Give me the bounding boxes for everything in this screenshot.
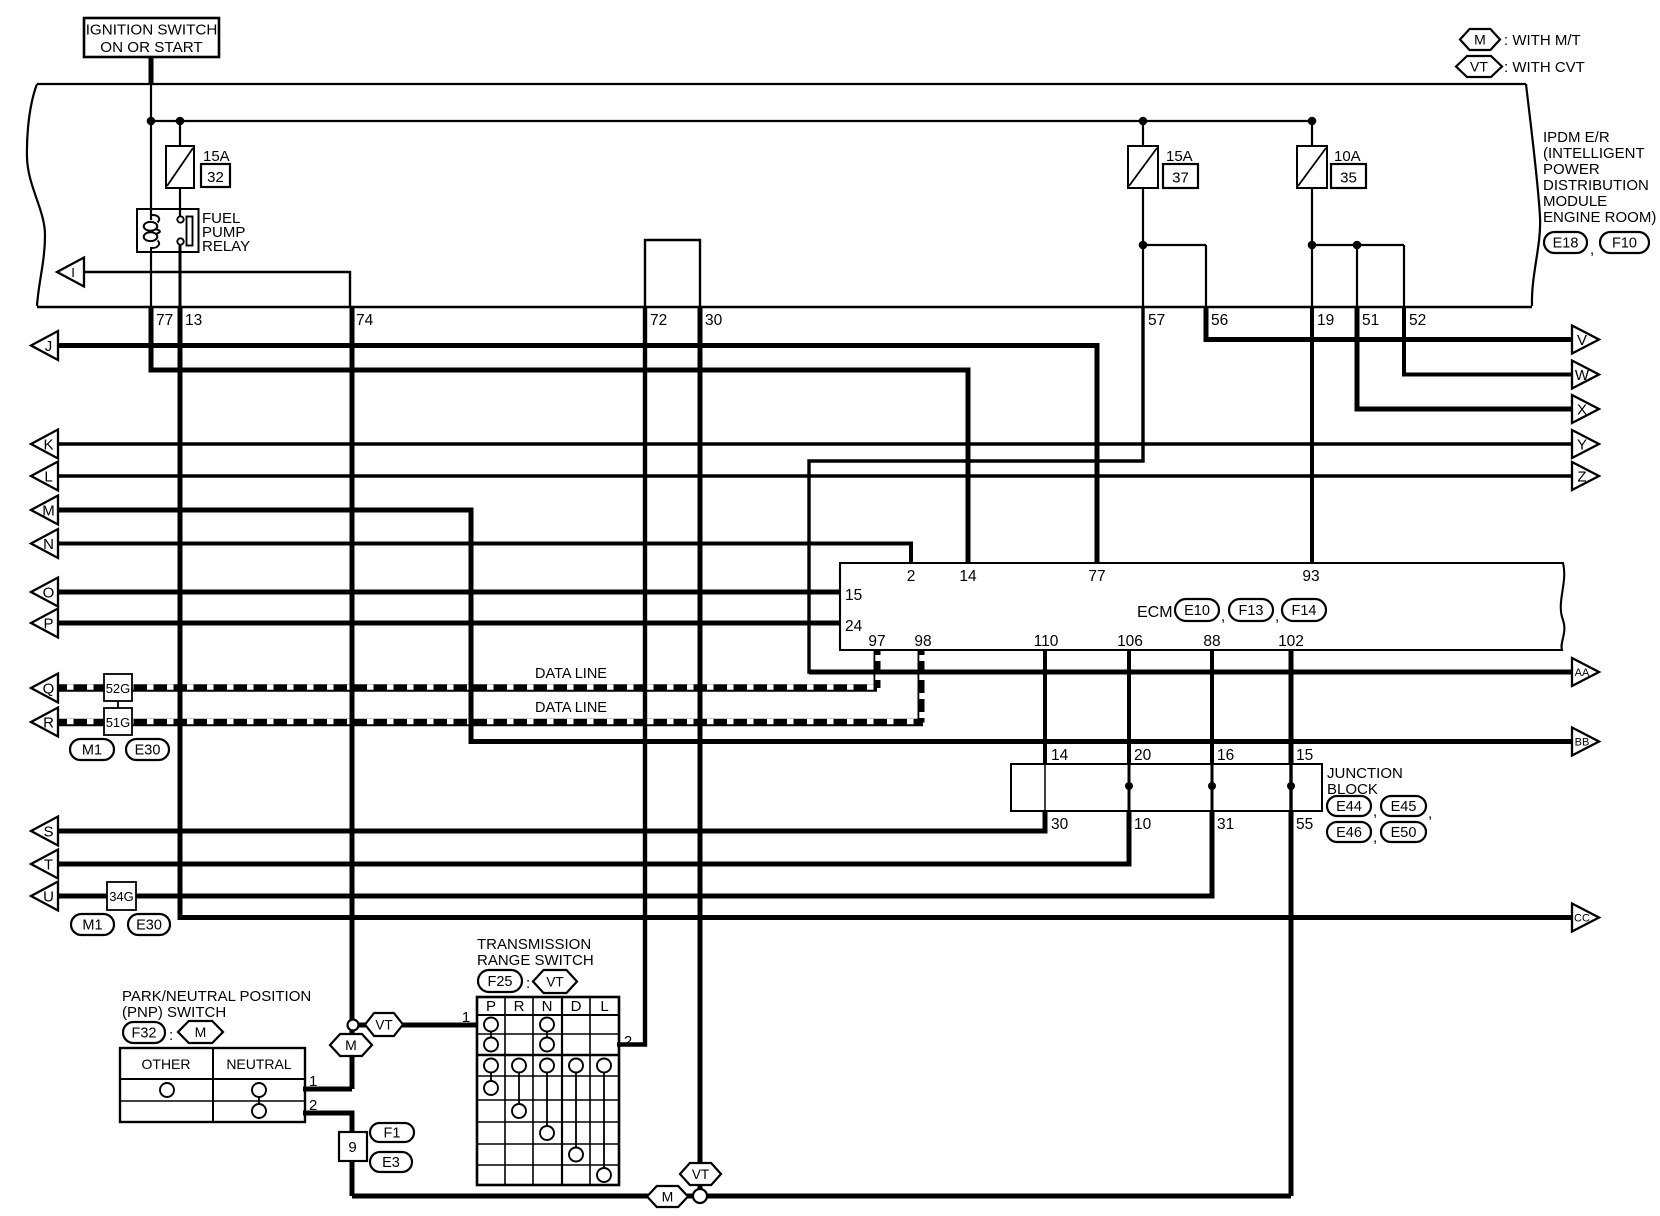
svg-text:M1: M1 xyxy=(82,918,102,934)
connector V triangle xyxy=(1572,326,1599,354)
wire connector T to junction block pin 10 xyxy=(58,810,1129,864)
legend hexagon VT with CVT xyxy=(1456,56,1502,77)
svg-text:AA: AA xyxy=(1575,667,1590,679)
svg-text:E44: E44 xyxy=(1336,799,1362,815)
connector J triangle xyxy=(31,331,58,360)
node junction block dot column 15 xyxy=(1287,782,1295,790)
svg-text:N: N xyxy=(43,536,54,553)
svg-text:77: 77 xyxy=(156,312,173,329)
wire junction block internal column 14-30 xyxy=(1044,764,1046,811)
wire junction block pin 55 to bottom wire xyxy=(1289,810,1294,1196)
svg-text:10A: 10A xyxy=(1334,148,1361,165)
svg-text:,: , xyxy=(1590,241,1594,258)
svg-text:L: L xyxy=(600,998,608,1015)
svg-text:77: 77 xyxy=(1088,568,1105,585)
svg-text:1: 1 xyxy=(462,1009,470,1026)
wire feed to fuse 32 xyxy=(179,121,181,147)
connector I triangle xyxy=(57,258,84,287)
connector X triangle xyxy=(1572,395,1599,423)
svg-text:IPDM E/R: IPDM E/R xyxy=(1543,129,1610,146)
IPDM E/R enclosure box (dashed body outline) xyxy=(27,84,45,306)
node open circle variant split xyxy=(348,1020,359,1031)
hexagon VT variant tag on pin 30 wire xyxy=(680,1163,721,1185)
wire relay contact to pin 13 xyxy=(179,244,182,307)
connector F1 oval xyxy=(370,1123,414,1142)
svg-text:F13: F13 xyxy=(1239,603,1264,619)
connector 9 box on PNP pin 2 wire xyxy=(339,1132,367,1161)
node junction dot at fuse 37 branch xyxy=(1139,117,1148,126)
connector F10 oval xyxy=(1600,232,1649,253)
svg-text:I: I xyxy=(71,265,75,280)
wire variant branch VT to transmission range switch pin 1 xyxy=(355,1023,478,1028)
svg-text:E30: E30 xyxy=(136,918,162,934)
wire fuse 35 to pins 19 51 52 xyxy=(1311,188,1313,307)
wire pin 19 to ECM pin 93 xyxy=(1310,306,1314,563)
wire pin 77 to ECM pin 14 xyxy=(151,306,968,563)
connector Z triangle xyxy=(1572,462,1599,490)
svg-text:14: 14 xyxy=(959,568,977,585)
svg-text:J: J xyxy=(45,338,53,355)
wire connector S to junction block pin 30 xyxy=(58,810,1045,831)
svg-text:RANGE SWITCH: RANGE SWITCH xyxy=(477,952,594,969)
svg-text:E46: E46 xyxy=(1336,825,1362,841)
svg-text:52: 52 xyxy=(1409,312,1426,329)
connector F13 oval xyxy=(1229,599,1273,621)
svg-text:72: 72 xyxy=(650,312,667,329)
svg-text:Z: Z xyxy=(1577,469,1586,486)
connector R triangle xyxy=(31,708,58,737)
svg-text:BB: BB xyxy=(1575,737,1590,749)
svg-text:F1: F1 xyxy=(384,1126,401,1142)
legend hexagon M with M/T xyxy=(1460,29,1500,50)
svg-text:DATA LINE: DATA LINE xyxy=(535,700,607,716)
connector T triangle xyxy=(31,850,58,879)
svg-text:2: 2 xyxy=(624,1033,632,1050)
svg-text:: WITH CVT: : WITH CVT xyxy=(1504,59,1585,76)
svg-text:16: 16 xyxy=(1217,747,1234,764)
hexagon M variant tag on PNP wire xyxy=(330,1034,372,1056)
wire fuse 37 to pins 57 and 56 xyxy=(1142,188,1144,307)
svg-text:ENGINE ROOM): ENGINE ROOM) xyxy=(1543,209,1656,226)
svg-text:X: X xyxy=(1577,402,1587,419)
svg-text:ECM: ECM xyxy=(1137,604,1173,621)
svg-text:15A: 15A xyxy=(1166,148,1193,165)
relay contact blade xyxy=(187,217,193,246)
connector CC triangle xyxy=(1572,904,1599,932)
connector M1 oval (data lines) xyxy=(70,739,114,760)
svg-text:M: M xyxy=(662,1189,674,1205)
connector K triangle xyxy=(31,430,58,459)
wire PNP pin 2 to connector 9 xyxy=(303,1113,352,1196)
svg-text:R: R xyxy=(43,715,54,732)
svg-text:E18: E18 xyxy=(1553,236,1579,252)
connector F14 oval xyxy=(1282,599,1326,621)
relay coil xyxy=(151,209,159,223)
svg-text:F14: F14 xyxy=(1292,603,1317,619)
svg-text:F25: F25 xyxy=(488,974,513,990)
wire connector N to ECM pin 2 xyxy=(58,544,911,564)
svg-text:56: 56 xyxy=(1211,312,1228,329)
fuse 37 15A xyxy=(1128,146,1158,188)
svg-text:ON OR START: ON OR START xyxy=(100,39,202,56)
connector M1 oval (line U) xyxy=(71,914,114,935)
wire bottom variant wire from PNP/TRS to junction block pin 55 xyxy=(352,1194,1291,1199)
shield box 51G on line R xyxy=(104,708,132,735)
wire pin 52 to connector W xyxy=(1404,306,1572,375)
svg-text:O: O xyxy=(43,585,55,602)
svg-text:10: 10 xyxy=(1134,816,1152,833)
svg-text:74: 74 xyxy=(356,312,374,329)
fuse 35 10A xyxy=(1297,146,1327,188)
svg-text:51G: 51G xyxy=(106,715,131,730)
wire ECM pin 106 to junction block pin 20 xyxy=(1127,651,1131,765)
connector E3 oval xyxy=(370,1152,412,1172)
connector O triangle xyxy=(31,578,58,607)
svg-text:35: 35 xyxy=(1340,170,1357,187)
svg-text:(INTELLIGENT: (INTELLIGENT xyxy=(1543,145,1645,162)
svg-text::: : xyxy=(169,1027,173,1044)
wire junction block internal column 16-31 xyxy=(1211,764,1214,811)
connector Y triangle xyxy=(1572,430,1599,458)
ignition switch box xyxy=(84,18,219,57)
label fuse 32 number box xyxy=(201,164,230,187)
svg-text:POWER: POWER xyxy=(1543,161,1600,178)
wire pin 30 down to bottom junction circle xyxy=(698,306,703,1196)
svg-text:P: P xyxy=(486,998,496,1015)
connector E45 oval xyxy=(1381,796,1426,816)
svg-text:CC: CC xyxy=(1574,913,1590,925)
svg-text:OTHER: OTHER xyxy=(142,1056,191,1072)
svg-text:106: 106 xyxy=(1117,633,1143,650)
label fuse 37 number box xyxy=(1163,164,1198,188)
svg-text:M: M xyxy=(195,1024,207,1040)
svg-text:,: , xyxy=(1373,829,1377,846)
svg-text:DISTRIBUTION: DISTRIBUTION xyxy=(1543,177,1649,194)
wire ECM pin 88 to junction block pin 16 xyxy=(1210,651,1214,765)
svg-text:RELAY: RELAY xyxy=(202,238,250,255)
svg-text:M: M xyxy=(345,1037,357,1053)
wire pin 57 to connector AA xyxy=(809,306,1572,672)
svg-text:57: 57 xyxy=(1148,312,1165,329)
svg-text:E45: E45 xyxy=(1391,799,1417,815)
wire IPDM internal feed bus xyxy=(151,120,1312,122)
connector L triangle xyxy=(31,462,58,491)
svg-text:Q: Q xyxy=(43,681,55,698)
node junction dot at coil branch xyxy=(147,117,156,126)
connector F32 oval xyxy=(123,1022,165,1043)
PNP switch table xyxy=(120,1048,305,1122)
shield box 52G on line Q xyxy=(104,674,132,701)
svg-text:,: , xyxy=(1221,608,1225,625)
PNP contact circle neutral row1 xyxy=(252,1083,266,1097)
svg-text:M: M xyxy=(1474,32,1486,48)
svg-text:DATA LINE: DATA LINE xyxy=(535,666,607,682)
svg-text:E3: E3 xyxy=(382,1155,400,1171)
wire connector P to ECM pin 24 xyxy=(58,621,841,626)
svg-text:15: 15 xyxy=(845,587,862,604)
svg-text:15A: 15A xyxy=(203,148,230,165)
svg-text:VT: VT xyxy=(692,1167,709,1182)
wire connector M to connector BB xyxy=(58,510,1572,742)
svg-text:Y: Y xyxy=(1577,437,1587,454)
svg-text:20: 20 xyxy=(1134,747,1152,764)
node junction dot at fuse 35 branch xyxy=(1308,117,1317,126)
svg-text:31: 31 xyxy=(1217,816,1234,833)
wire relay coil to pin 77 xyxy=(150,252,152,307)
svg-text:L: L xyxy=(44,469,52,486)
connector BB triangle xyxy=(1572,728,1599,756)
connector W triangle xyxy=(1572,361,1599,389)
svg-text::: : xyxy=(526,975,530,992)
svg-text:VT: VT xyxy=(375,1017,392,1032)
wire IPDM internal loop pins 72 and 30 xyxy=(645,240,700,307)
node junction block dot column 16 xyxy=(1208,782,1216,790)
svg-text:PARK/NEUTRAL POSITION: PARK/NEUTRAL POSITION xyxy=(122,988,311,1005)
svg-text:13: 13 xyxy=(185,312,202,329)
PNP contact link neutral xyxy=(258,1092,260,1109)
svg-text:102: 102 xyxy=(1278,633,1304,650)
svg-text:JUNCTION: JUNCTION xyxy=(1327,765,1403,782)
svg-text:37: 37 xyxy=(1172,170,1189,187)
connector E30 oval (line U) xyxy=(128,914,170,935)
svg-text:IGNITION SWITCH: IGNITION SWITCH xyxy=(86,22,218,39)
svg-text:P: P xyxy=(43,616,53,633)
wire pin 72 to transmission range switch pin 2 xyxy=(617,306,645,1045)
wire ECM pin 110 to junction block pin 14 xyxy=(1043,651,1047,765)
wire link between 52G and 51G shield boxes xyxy=(117,700,119,709)
wire ECM pin 102 to junction block pin 15 xyxy=(1289,651,1294,765)
connector P triangle xyxy=(31,609,58,638)
svg-text:E30: E30 xyxy=(135,743,161,759)
svg-text:55: 55 xyxy=(1296,816,1313,833)
node junction block dot column 20 xyxy=(1125,782,1133,790)
svg-text:MODULE: MODULE xyxy=(1543,193,1607,210)
svg-text:19: 19 xyxy=(1317,312,1334,329)
hexagon VT variant tag at F25 xyxy=(533,970,577,993)
wire connector J to ECM pin 77 xyxy=(58,346,1097,564)
label fuse 35 number box xyxy=(1331,164,1366,188)
connector E44 oval xyxy=(1327,796,1371,816)
svg-text:52G: 52G xyxy=(106,681,131,696)
transmission range switch table grid xyxy=(477,997,619,1185)
svg-text:30: 30 xyxy=(1051,816,1069,833)
wire data line R (CAN-L) from connector R to ECM pin 98 xyxy=(58,719,923,727)
svg-text:VT: VT xyxy=(546,974,563,989)
svg-text:D: D xyxy=(571,998,582,1015)
wire pin 56 to connector V xyxy=(1206,306,1572,340)
wire connector O to ECM pin 15 xyxy=(58,590,841,595)
wire PNP pin 1 to variant branch xyxy=(303,1087,352,1092)
wire connector L to connector Z xyxy=(58,474,1572,477)
svg-text:30: 30 xyxy=(705,312,723,329)
svg-text:14: 14 xyxy=(1051,747,1069,764)
svg-text:51: 51 xyxy=(1362,312,1379,329)
junction block box xyxy=(1011,764,1322,811)
svg-text:TRANSMISSION: TRANSMISSION xyxy=(477,936,591,953)
wire junction block internal column 20-10 xyxy=(1128,764,1131,811)
svg-text:R: R xyxy=(514,998,525,1015)
wire pin 51 to connector X xyxy=(1357,306,1572,409)
wire data line Q (CAN-H) from connector Q to ECM pin 97 xyxy=(58,684,877,692)
svg-text:88: 88 xyxy=(1203,633,1220,650)
connector U triangle xyxy=(31,882,58,911)
svg-text:W: W xyxy=(1575,367,1590,384)
connector E18 oval xyxy=(1544,232,1587,253)
svg-text:24: 24 xyxy=(845,618,863,635)
wire ignition switch feed into IPDM xyxy=(149,55,154,85)
svg-text:,: , xyxy=(1275,608,1279,625)
ECM box xyxy=(840,563,1564,650)
connector E50 oval xyxy=(1381,822,1426,842)
svg-text:110: 110 xyxy=(1034,633,1059,650)
wire variant branch M down to PNP pin 1 xyxy=(350,1021,355,1089)
svg-text:F32: F32 xyxy=(132,1026,157,1042)
svg-text:V: V xyxy=(1577,332,1587,349)
connector F25 oval xyxy=(478,970,522,992)
node junction dot at pin 51 branch xyxy=(1353,241,1362,250)
wire pin 74 down to PNP/TRS branch circle xyxy=(350,306,355,1021)
svg-text:1: 1 xyxy=(309,1073,317,1090)
svg-text:S: S xyxy=(43,824,53,841)
svg-text:9: 9 xyxy=(348,1139,356,1156)
wire feed to fuse 37 xyxy=(1142,121,1144,147)
connector E46 oval xyxy=(1327,822,1371,842)
svg-text:98: 98 xyxy=(914,633,931,650)
svg-text:,: , xyxy=(1373,803,1377,820)
connector S triangle xyxy=(31,817,58,846)
connector Q triangle xyxy=(31,674,58,703)
wire coil feed to fuel pump relay xyxy=(150,121,152,220)
svg-text:U: U xyxy=(43,889,54,906)
svg-text:2: 2 xyxy=(907,568,916,585)
wire connector I to pin 74 xyxy=(85,272,350,307)
PNP contact circle other xyxy=(160,1083,174,1097)
PNP contact circle neutral row2 xyxy=(252,1104,266,1118)
hexagon M variant tag on bottom wire xyxy=(647,1186,688,1207)
svg-text:T: T xyxy=(44,857,53,874)
svg-text:2: 2 xyxy=(309,1097,317,1114)
TRS contact circles xyxy=(484,1018,498,1032)
svg-text:E10: E10 xyxy=(1184,603,1210,619)
svg-text:M: M xyxy=(42,503,55,520)
shield box 34G on line U xyxy=(107,882,136,910)
svg-text:15: 15 xyxy=(1296,747,1313,764)
TRS contact link lines xyxy=(490,1025,492,1045)
svg-text:32: 32 xyxy=(207,169,224,186)
connector AA triangle xyxy=(1572,658,1599,686)
svg-text:97: 97 xyxy=(868,633,885,650)
fuel pump relay box xyxy=(137,209,199,252)
wire pin 13 to connector CC xyxy=(180,306,1572,918)
connector N triangle xyxy=(31,529,58,558)
wire junction block internal column 15-55 xyxy=(1289,764,1292,811)
svg-text:K: K xyxy=(43,437,53,454)
svg-text:VT: VT xyxy=(1470,59,1488,75)
connector M triangle xyxy=(31,496,58,525)
svg-text:E50: E50 xyxy=(1391,825,1417,841)
wire fuse 32 to relay contact xyxy=(179,188,181,218)
relay contact points xyxy=(177,216,183,222)
svg-text:,: , xyxy=(1428,805,1432,822)
fuse 32 15A xyxy=(166,146,194,188)
hexagon VT variant tag on TRS wire xyxy=(365,1013,403,1036)
node junction dot below fuse 35 xyxy=(1308,241,1317,250)
svg-text:93: 93 xyxy=(1302,568,1319,585)
wire AA main segment emphasised xyxy=(809,670,1572,675)
node open circle bottom variant join xyxy=(693,1189,707,1203)
wire feed to fuse 35 xyxy=(1311,121,1313,147)
node junction dot below fuse 37 xyxy=(1139,241,1148,250)
svg-text:34G: 34G xyxy=(109,889,134,904)
connector E10 oval xyxy=(1175,599,1219,621)
svg-text:F10: F10 xyxy=(1612,236,1637,252)
node junction dot at fuse 32 branch xyxy=(176,117,185,126)
hexagon M variant tag at F32 xyxy=(178,1021,223,1043)
connector E30 oval (data lines) xyxy=(126,739,169,760)
wire connector U to junction block pin 31 xyxy=(58,810,1212,896)
svg-text:M1: M1 xyxy=(82,743,102,759)
svg-text:NEUTRAL: NEUTRAL xyxy=(226,1056,292,1072)
svg-text:(PNP) SWITCH: (PNP) SWITCH xyxy=(122,1004,226,1021)
svg-text:N: N xyxy=(542,998,553,1015)
wire connector K to connector Y xyxy=(58,442,1572,445)
svg-text:: WITH M/T: : WITH M/T xyxy=(1504,32,1581,49)
